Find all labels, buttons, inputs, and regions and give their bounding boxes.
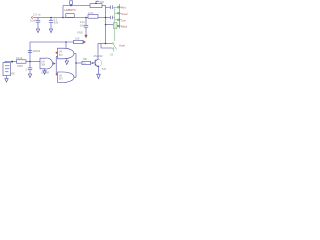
svg-text:LM: LM	[59, 52, 62, 54]
op-amp U1	[40, 58, 53, 69]
capacitor C6 right mid	[106, 17, 111, 19]
ground below Q1	[97, 74, 101, 78]
transistor Q1	[94, 59, 102, 67]
node U2/U3 outputs	[75, 62, 77, 64]
resistor R4 box	[74, 40, 84, 43]
svg-text:Line: Line	[121, 19, 126, 22]
wire opamp2 top pin	[65, 42, 67, 48]
connector edge	[119, 4, 122, 29]
capacitor C8 box series	[17, 60, 27, 63]
wire rail B	[63, 5, 90, 7]
svg-text:.1: .1	[25, 68, 28, 72]
wire vertical x63	[62, 6, 64, 18]
svg-text:Black: Black	[121, 26, 128, 29]
svg-text:50K: 50K	[100, 0, 105, 4]
node rail C branch	[65, 41, 67, 43]
capacitor C7 on x30	[28, 50, 32, 52]
potentiometer R3	[90, 4, 102, 8]
ground below C2	[50, 28, 52, 30]
net arrow U2 input	[55, 51, 57, 54]
svg-text:1N914: 1N914	[33, 49, 41, 53]
connector pins green	[113, 6, 120, 51]
op-amp U3	[58, 72, 75, 82]
resistor R2 box on rail A	[88, 15, 98, 19]
net arrow rail A left	[31, 16, 33, 19]
node rail A / x106	[105, 17, 107, 19]
net arrow x86 down	[84, 35, 87, 39]
svg-text:16V: 16V	[80, 24, 85, 28]
ground below J1	[6, 76, 8, 79]
ground below C9	[28, 74, 31, 78]
resistor R5 box	[82, 61, 91, 64]
wire U2 to U3 input	[55, 56, 57, 74]
wire collector drop	[97, 44, 99, 59]
resistor R1 box on rail A	[66, 14, 74, 18]
svg-text:10K: 10K	[83, 57, 88, 61]
node x106 tap	[105, 24, 107, 26]
svg-text:Hook: Hook	[119, 45, 125, 48]
wire vertical x30	[29, 42, 31, 62]
hook switch S1	[113, 43, 114, 44]
op-amp U2	[58, 48, 75, 59]
svg-text:10uF: 10uF	[30, 19, 36, 23]
wire switch top	[98, 43, 112, 45]
svg-text:LM567C: LM567C	[65, 8, 77, 12]
capacitor C2	[50, 18, 52, 21]
svg-text:GND: GND	[77, 31, 83, 35]
capacitor C5 right top	[106, 6, 111, 8]
node rail A / C2	[50, 17, 52, 19]
svg-text:63V: 63V	[54, 21, 59, 25]
svg-text:2.2u: 2.2u	[80, 20, 86, 24]
node base pin junction	[92, 62, 94, 64]
svg-text:4.7K: 4.7K	[88, 11, 94, 15]
svg-text:100: 100	[75, 36, 80, 40]
capacitor C1	[37, 18, 39, 21]
svg-text:Green: Green	[121, 13, 128, 16]
crystal Y1 top	[70, 1, 73, 5]
svg-text:LM386: LM386	[41, 71, 49, 75]
svg-text:Red: Red	[121, 7, 126, 10]
svg-text:S1: S1	[110, 53, 114, 57]
node rail A / x86	[85, 17, 87, 19]
wire switch bottom jog	[101, 44, 112, 49]
wire rail C	[30, 41, 74, 43]
net arrow U1 output	[53, 62, 55, 65]
wire tap to pin4	[106, 24, 114, 26]
net arrow R4 right	[83, 41, 86, 44]
pin4 block	[113, 23, 117, 29]
node near jack	[11, 61, 13, 63]
ground pin U2	[66, 58, 68, 61]
ground below C1	[37, 28, 39, 30]
svg-text:MIC: MIC	[11, 72, 16, 76]
svg-text:LM: LM	[59, 75, 62, 77]
svg-text:547: 547	[102, 67, 107, 71]
svg-text:630V: 630V	[17, 64, 23, 68]
jack J1	[3, 63, 11, 76]
vertical x86 branch	[85, 18, 87, 26]
svg-text:12V dc: 12V dc	[33, 14, 42, 17]
wire audio path	[5, 62, 17, 63]
ground pin U1	[44, 69, 46, 71]
svg-text:2N2222: 2N2222	[94, 54, 104, 58]
node audio/x30	[29, 61, 31, 63]
wire vertical x106	[105, 6, 107, 44]
node x106 / switch-top wire	[105, 43, 107, 45]
svg-text:LM: LM	[41, 61, 44, 63]
net arrow U3 input	[55, 73, 57, 76]
svg-text:0.1uF: 0.1uF	[16, 56, 23, 60]
wire rail A	[33, 17, 106, 19]
node rail A / x63	[62, 17, 64, 19]
capacitor C9 to ground	[29, 62, 31, 68]
